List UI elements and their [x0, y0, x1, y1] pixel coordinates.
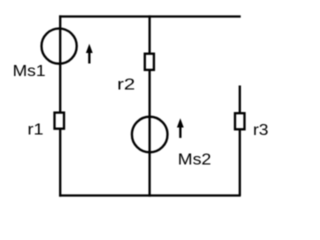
svg-text:r2: r2 [117, 76, 135, 93]
svg-text:Ms2: Ms2 [178, 151, 212, 168]
svg-text:r3: r3 [253, 122, 269, 139]
svg-text:r1: r1 [28, 122, 44, 139]
svg-text:Ms1: Ms1 [13, 63, 46, 80]
